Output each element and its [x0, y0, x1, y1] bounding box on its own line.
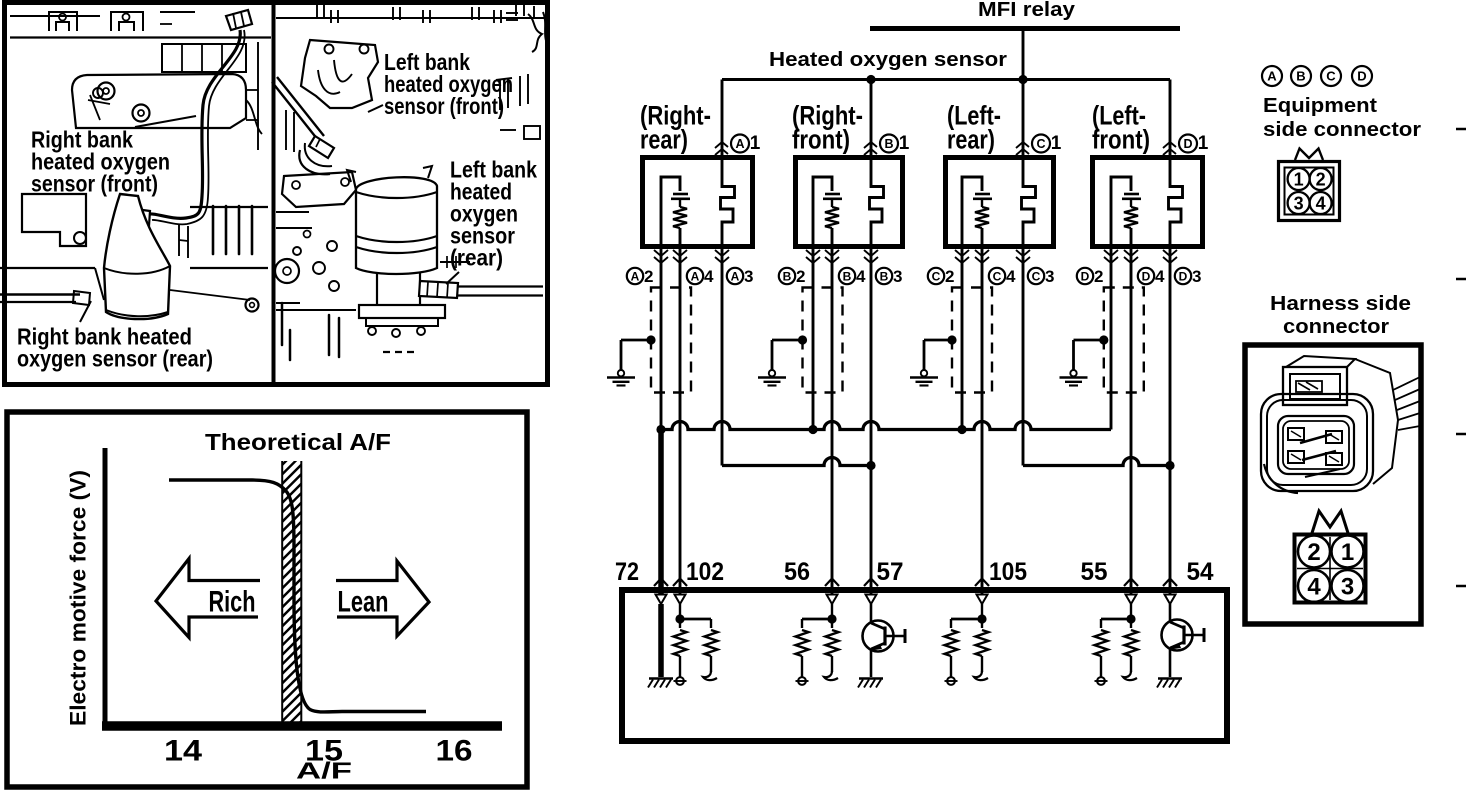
node: feed junction C	[1018, 75, 1027, 84]
connector D4 chevrons	[1124, 250, 1138, 256]
sensor D internal: cell resistor	[1130, 199, 1132, 207]
engine right: manifold bracket	[301, 40, 378, 108]
svg-text:D: D	[1357, 69, 1366, 84]
ground C	[923, 340, 926, 371]
engine right: rear O2 sensor	[419, 281, 458, 298]
resistor at x1131	[1125, 630, 1138, 656]
engine left: side panel	[22, 194, 86, 246]
wire feed bus down to D1	[1169, 80, 1172, 156]
label C2	[928, 268, 944, 284]
harness pin layout square	[1295, 535, 1366, 603]
sensor B internal: zirconia cell	[825, 193, 840, 196]
engine right: pointer left bank front	[368, 105, 383, 112]
svg-text:Theoretical A/F: Theoretical A/F	[205, 429, 391, 455]
svg-text:D: D	[1183, 137, 1192, 151]
engine left: block ribs upper right	[162, 44, 246, 72]
connector C4 chevrons	[975, 250, 989, 256]
svg-text:2: 2	[796, 267, 805, 286]
svg-text:rear): rear)	[947, 125, 995, 155]
svg-text:Rich: Rich	[209, 586, 256, 619]
svg-text:3: 3	[1294, 194, 1304, 214]
bus2 right: C3-D3	[1023, 458, 1170, 466]
label D3	[1175, 268, 1191, 284]
svg-text:3: 3	[1341, 574, 1354, 601]
transistor Q pin 54	[1169, 604, 1172, 623]
label A1	[731, 135, 749, 153]
connector letters A B C D	[1262, 66, 1282, 86]
y axis	[103, 448, 108, 729]
svg-text:D: D	[1081, 269, 1090, 283]
ground transistor pin 54	[1158, 677, 1182, 680]
label A3	[727, 268, 743, 284]
engine left: clip brackets	[49, 12, 77, 31]
pin 72 internal ground	[649, 677, 673, 680]
engine left: hose stub	[246, 100, 262, 134]
oxygen sensor box B	[796, 158, 903, 247]
pin 102 branch wire	[680, 618, 711, 621]
equipment pin 2	[1310, 168, 1332, 190]
pin 105 connector chevron	[975, 579, 989, 587]
pin 105 right resistor end (hook)	[981, 656, 983, 672]
svg-text:C: C	[1036, 137, 1045, 151]
engine right: base plate	[359, 305, 445, 318]
shield ground wire D	[1074, 339, 1104, 342]
svg-text:3: 3	[893, 267, 902, 286]
svg-text:C: C	[932, 269, 941, 283]
svg-text:1: 1	[1294, 170, 1304, 190]
svg-text:D: D	[1179, 269, 1188, 283]
equipment connector keyway M	[1295, 149, 1323, 161]
svg-text:3: 3	[1192, 267, 1201, 286]
engine right: canister neck	[376, 272, 378, 305]
harness connector 3D: right side	[1355, 359, 1398, 484]
shield (dashed) around A2/A4	[651, 288, 691, 393]
svg-text:B: B	[783, 269, 792, 283]
page edge marks	[1456, 128, 1466, 131]
engine right: mid chassis marks	[440, 261, 470, 263]
label B1	[880, 135, 898, 153]
svg-text:4: 4	[704, 267, 714, 286]
connector B4 chevrons	[825, 250, 839, 256]
svg-text:1: 1	[899, 133, 910, 154]
svg-text:A/F: A/F	[296, 758, 352, 784]
connector C3 chevrons	[1016, 250, 1030, 256]
harness pin layout keyway M	[1312, 511, 1348, 533]
engine left: exhaust downpipe funnel	[104, 194, 170, 319]
pin 55 connector chevron	[1124, 579, 1138, 587]
engine right: right column details	[499, 80, 501, 110]
engine left: label pointer (front)	[135, 116, 196, 127]
label D1	[1179, 135, 1197, 153]
svg-text:sensor (front): sensor (front)	[384, 93, 504, 119]
connector A2 chevrons	[654, 250, 668, 256]
pin 102 entry triangle	[675, 595, 686, 605]
pin 105 left resistor ground (circle)	[950, 656, 952, 677]
resistor at x832	[826, 630, 839, 656]
svg-text:1: 1	[1051, 133, 1062, 154]
svg-text:C: C	[1032, 269, 1041, 283]
engine left: sensor harness connector	[226, 10, 252, 30]
svg-text:1: 1	[750, 133, 761, 154]
node bus1 A2	[656, 425, 665, 434]
node bus2 D3	[1165, 461, 1174, 470]
svg-text:57: 57	[877, 558, 904, 586]
harness pin 1	[1332, 536, 1364, 568]
svg-text:102: 102	[686, 558, 724, 586]
svg-text:front): front)	[1092, 125, 1150, 155]
sensor B internal: heater element	[870, 155, 884, 249]
feed bus wire	[722, 78, 1170, 81]
wire feed bus down to C1	[1022, 80, 1025, 156]
node shield A	[646, 335, 655, 344]
harness connector 3D: shine strokes	[1300, 434, 1332, 443]
svg-text:Electro motive force (V): Electro motive force (V)	[66, 470, 91, 726]
wire transistor emitter to ground pin 54	[1169, 648, 1172, 677]
ground transistor pin 57	[859, 677, 883, 680]
connector A1 chevrons	[715, 142, 728, 148]
node pin 105	[977, 614, 986, 623]
pin 72 connector chevron	[654, 579, 668, 587]
shield (dashed) around B2/B4	[803, 288, 843, 393]
shield ground wire C	[924, 339, 952, 342]
svg-text:54: 54	[1187, 558, 1214, 586]
svg-text:B: B	[1296, 69, 1305, 84]
node bus1 B2	[808, 425, 817, 434]
svg-text:4: 4	[1316, 194, 1326, 214]
wire bus1 to pin 72 (thick)	[658, 430, 664, 595]
svg-text:1: 1	[1341, 539, 1354, 566]
label A4	[687, 268, 703, 284]
sensor C internal: heater element	[1022, 155, 1036, 249]
wire C3 down to bus2	[1022, 249, 1025, 466]
engine illustration divider	[272, 5, 276, 383]
pin 102 right resistor end (hook)	[710, 656, 712, 672]
pin 72 entry triangle	[656, 595, 667, 605]
svg-text:2: 2	[1316, 170, 1326, 190]
transistor Q pin 57	[870, 604, 873, 624]
engine left: rear pipe	[0, 293, 80, 295]
node shield B	[798, 335, 807, 344]
sensor C internal: cell resistor	[981, 199, 983, 207]
svg-text:B: B	[880, 269, 889, 283]
equipment connector body	[1279, 162, 1340, 221]
oxygen sensor box D	[1093, 158, 1203, 247]
node pin 56	[827, 614, 836, 623]
harness connector 3D: body	[1261, 394, 1373, 491]
ECU box	[622, 590, 1227, 741]
lean arrow	[336, 561, 429, 636]
MFI relay bus bar	[870, 26, 1180, 31]
svg-text:72: 72	[615, 558, 639, 586]
engine right: bolt circles cluster	[275, 259, 299, 283]
engine right: elbow pipe	[299, 150, 330, 174]
engine right: front sensor diagonal pipe	[272, 82, 318, 140]
engine right: chassis lines	[276, 211, 309, 213]
label C3	[1028, 268, 1044, 284]
svg-text:56: 56	[784, 558, 810, 586]
engine left: top panel lines	[10, 36, 271, 38]
node: feed junction B	[866, 75, 875, 84]
svg-text:B: B	[884, 137, 893, 151]
connector C2 chevrons	[955, 250, 969, 256]
wire B3 down to pin 57	[870, 249, 873, 594]
graph frame	[7, 412, 527, 787]
oxygen sensor box C	[946, 158, 1054, 247]
connector A3 chevrons	[715, 250, 729, 256]
svg-text:D: D	[1142, 269, 1151, 283]
node pin 102	[675, 614, 684, 623]
sensor D internal: zirconia cell	[1124, 193, 1139, 196]
connector D3 chevrons	[1163, 250, 1177, 256]
pin 105 entry triangle	[977, 595, 988, 605]
svg-text:connector: connector	[1283, 316, 1389, 338]
svg-text:2: 2	[1094, 267, 1103, 286]
node pin 55	[1126, 614, 1135, 623]
svg-text:Lean: Lean	[338, 586, 389, 619]
ground B	[771, 340, 774, 371]
svg-text:4: 4	[1006, 267, 1016, 286]
harness pin 2	[1298, 536, 1330, 568]
engine right: dashed member	[383, 351, 414, 353]
svg-text:C: C	[1326, 69, 1336, 84]
wire B4 down to pin 56	[831, 249, 834, 594]
harness connector 3D: wires	[1393, 377, 1420, 390]
resistor at x982	[976, 630, 989, 656]
svg-text:front): front)	[792, 125, 850, 155]
svg-text:MFI relay: MFI relay	[978, 0, 1076, 21]
label A2	[627, 268, 643, 284]
sensor A internal: cell resistor	[679, 199, 681, 207]
wire feed bus down to B1	[870, 80, 873, 156]
svg-text:A: A	[691, 269, 700, 283]
node shield C	[947, 335, 956, 344]
wire C4 down to pin 105	[981, 249, 984, 594]
engine left: bolt boss	[93, 88, 103, 98]
connector B3 chevrons	[864, 250, 878, 256]
engine right: downpipe verticals	[285, 110, 287, 150]
pin 56 left resistor ground (circle)	[801, 656, 803, 677]
label C4	[989, 268, 1005, 284]
pin 56 internal wire	[831, 604, 833, 628]
engine right: flange plate	[282, 172, 356, 207]
svg-text:16: 16	[436, 735, 473, 768]
svg-text:Equipment: Equipment	[1263, 95, 1377, 117]
svg-text:4: 4	[1307, 574, 1321, 601]
harness connector 3D: top housing	[1283, 367, 1347, 405]
label B3	[876, 268, 892, 284]
pin 72 internal: thick ground wire	[658, 604, 664, 677]
equipment pin 3	[1288, 192, 1310, 214]
svg-text:A: A	[631, 269, 640, 283]
x axis	[102, 721, 502, 731]
harness pin 4	[1298, 570, 1330, 602]
pin 102 connector chevron	[673, 579, 687, 587]
svg-text:(rear): (rear)	[450, 245, 503, 271]
pin 57 connector chevron	[864, 579, 878, 587]
sensor D internal: cell hook wire	[1111, 177, 1131, 249]
pin 55 entry triangle	[1126, 595, 1137, 605]
sensor A internal: heater element	[721, 155, 735, 249]
engine right: front O2 sensor body	[309, 136, 334, 158]
bus2 left: A3-B3	[722, 458, 871, 466]
svg-text:3: 3	[744, 267, 753, 286]
pin 56 entry triangle	[827, 595, 838, 605]
label B4	[839, 268, 855, 284]
ground A	[620, 340, 623, 371]
engine left: valve cover	[72, 74, 246, 128]
pin 56 branch wire	[802, 618, 832, 621]
pin 55 branch wire	[1101, 618, 1131, 621]
wire transistor emitter to ground pin 57	[870, 649, 873, 677]
wire feed bus down to A1	[721, 80, 724, 156]
svg-text:2: 2	[644, 267, 653, 286]
svg-text:3: 3	[1045, 267, 1054, 286]
bus1: sensor ground bus	[661, 422, 1111, 430]
connector D1 chevrons	[1163, 142, 1176, 148]
connector B1 chevrons	[864, 142, 877, 148]
svg-text:Heated oxygen sensor: Heated oxygen sensor	[769, 49, 1007, 71]
svg-text:4: 4	[856, 267, 866, 286]
engine left: label pointer (rear)	[80, 301, 91, 322]
harness connector 3D: terminals	[1288, 428, 1304, 440]
svg-text:A: A	[731, 269, 740, 283]
pin 54 connector chevron	[1163, 579, 1177, 587]
svg-text:1: 1	[1198, 133, 1209, 154]
svg-text:side connector: side connector	[1263, 119, 1421, 141]
connector A4 chevrons	[673, 250, 687, 256]
wire B2 down to bus1	[812, 249, 815, 430]
equipment pin 1	[1288, 168, 1310, 190]
svg-text:B: B	[843, 269, 852, 283]
engine right: floor ribs	[281, 303, 284, 345]
equipment pin 4	[1310, 192, 1332, 214]
svg-text:oxygen sensor (rear): oxygen sensor (rear)	[17, 346, 213, 372]
wire A2 down to bus1	[660, 249, 663, 430]
harness pin 3	[1332, 570, 1364, 602]
wire C2 down to bus1	[961, 249, 964, 430]
resistor at x711	[705, 630, 718, 656]
engine right: upper right machinery	[515, 4, 517, 16]
wire MFI relay to feed bus	[1022, 31, 1025, 80]
svg-text:A: A	[1267, 69, 1277, 84]
node bus2 B3	[866, 461, 875, 470]
pin 57 entry triangle	[866, 595, 877, 605]
engine left: oil pan slots	[212, 206, 215, 254]
svg-text:4: 4	[1155, 267, 1165, 286]
resistor at x1101	[1095, 630, 1108, 656]
sensor A internal: cell hook wire	[661, 177, 680, 249]
oxygen sensor box A	[643, 158, 753, 247]
harness connector 3D: top face	[1286, 356, 1355, 367]
engine illustration frame	[5, 3, 548, 385]
svg-text:rear): rear)	[640, 125, 688, 155]
connector D2 chevrons	[1104, 250, 1118, 256]
emf curve	[169, 480, 426, 712]
harness connector 3D: body corner stroke	[1264, 464, 1298, 493]
pin 105 branch wire	[951, 618, 982, 621]
label D4	[1138, 268, 1154, 284]
pin 102 internal wire	[679, 604, 681, 628]
svg-text:Harness side: Harness side	[1270, 293, 1411, 315]
svg-text:55: 55	[1081, 558, 1108, 586]
sensor A internal: zirconia cell	[673, 193, 688, 196]
label B2	[779, 268, 795, 284]
engine left: sensor cable (front)	[150, 30, 240, 218]
harness connector 3D: inner cavity	[1278, 416, 1354, 474]
pin 105 internal wire	[981, 604, 983, 628]
svg-text:2: 2	[1307, 539, 1320, 566]
shield (dashed) around C2/C4	[952, 288, 992, 393]
connector C1 chevrons	[1016, 142, 1029, 148]
sensor C internal: zirconia cell	[975, 193, 990, 196]
sensor C internal: cell hook wire	[962, 177, 982, 249]
shield ground wire A	[621, 339, 651, 342]
wire A4 down to pin 102	[679, 249, 682, 594]
pin 56 right resistor end (hook)	[831, 656, 833, 672]
sensor B internal: cell resistor	[831, 199, 833, 207]
label C1	[1032, 135, 1050, 153]
pin 55 right resistor end (hook)	[1130, 656, 1132, 672]
label D2	[1077, 268, 1093, 284]
engine right: top rail	[276, 17, 546, 19]
engine left: bracket by funnel	[178, 224, 180, 256]
engine left: chassis lines	[0, 267, 95, 269]
pin 54 entry triangle	[1165, 595, 1176, 605]
pin 102 left resistor ground (circle)	[679, 656, 681, 677]
sensor B internal: cell hook wire	[813, 177, 832, 249]
shield ground wire B	[772, 339, 803, 342]
connector B2 chevrons	[806, 250, 820, 256]
wire A3 down to bus2	[721, 249, 724, 466]
rich arrow	[156, 559, 260, 638]
pin 56 connector chevron	[825, 579, 839, 587]
engine left: front O2 sensor body	[127, 208, 150, 226]
harness connector frame	[1245, 345, 1421, 624]
svg-text:C: C	[993, 269, 1002, 283]
engine right: pointer left bank rear	[446, 272, 459, 284]
engine right: canister ears	[347, 170, 356, 182]
node bus1 C2	[957, 425, 966, 434]
pin 55 internal wire	[1130, 604, 1132, 628]
svg-text:A: A	[735, 137, 744, 151]
sensor D internal: heater element	[1169, 155, 1183, 249]
resistor at x680	[674, 630, 687, 656]
engine right: catalyst canister	[356, 177, 437, 274]
resistor at x951	[945, 630, 958, 656]
engine right: rear pipe	[458, 285, 543, 287]
resistor at x802	[796, 630, 809, 656]
shield (dashed) around D2/D4	[1104, 288, 1144, 393]
engine left: block edge	[257, 42, 259, 150]
svg-text:14: 14	[164, 735, 202, 768]
wire D3 down to pin 54	[1169, 249, 1172, 594]
ground D	[1072, 340, 1075, 371]
svg-text:105: 105	[989, 558, 1027, 586]
svg-text:2: 2	[945, 267, 954, 286]
wire D4 down to pin 55	[1130, 249, 1133, 594]
wire D2 down to bus1 end	[1110, 249, 1113, 430]
svg-text:sensor (front): sensor (front)	[31, 171, 158, 197]
node shield D	[1099, 335, 1108, 344]
pin 55 left resistor ground (circle)	[1100, 656, 1102, 677]
